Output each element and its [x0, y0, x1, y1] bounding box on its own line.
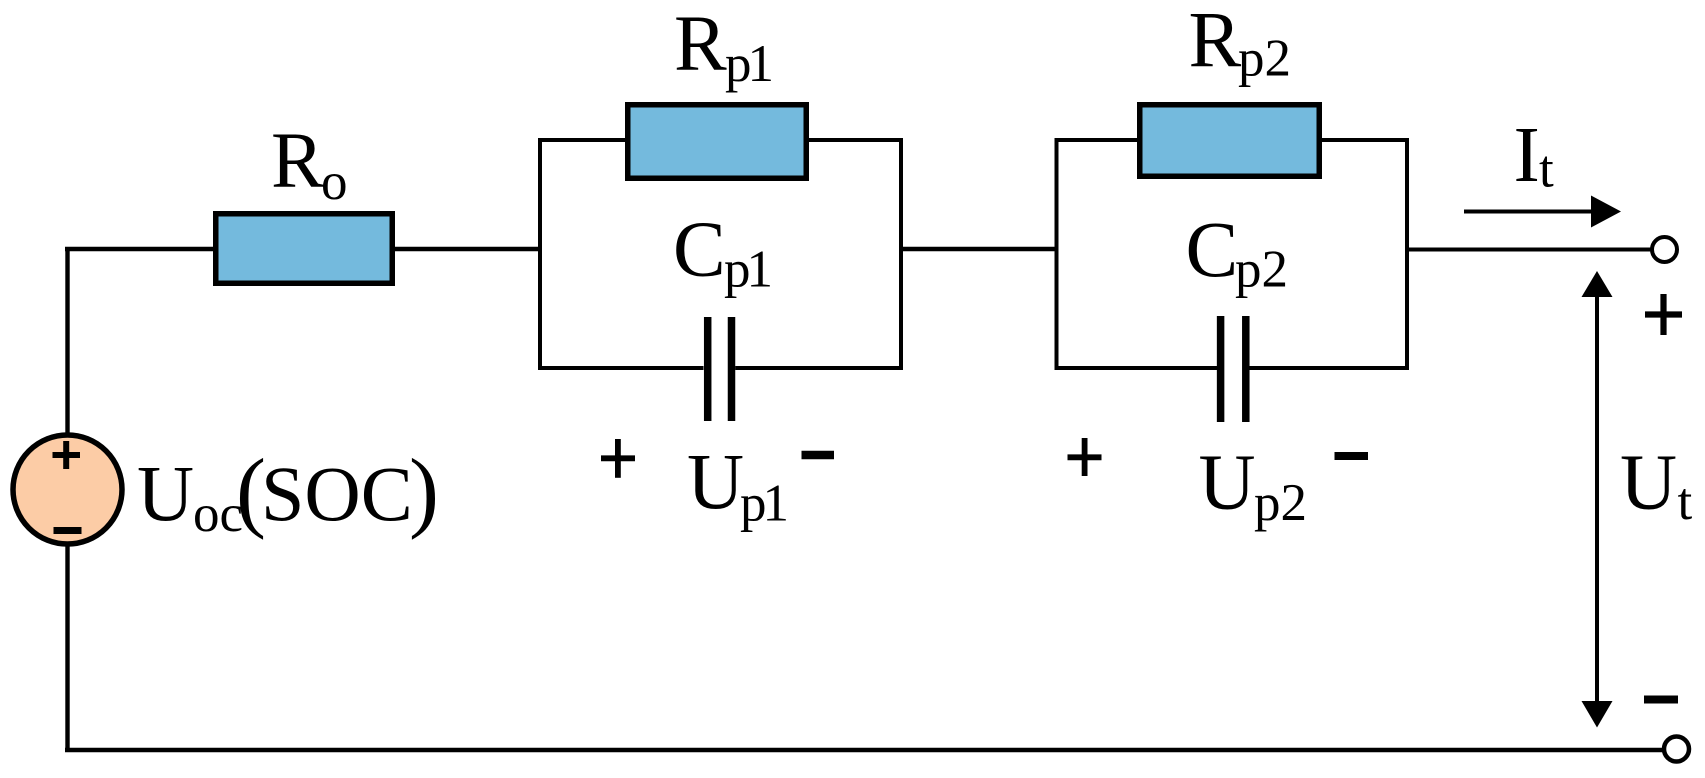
label R_o [271, 118, 348, 211]
svg-text:U: U [687, 439, 744, 526]
voltage source plus sign [53, 441, 81, 469]
label C_p1 [673, 207, 771, 299]
plus sign Ut [1645, 294, 1682, 335]
label C_p2 [1186, 207, 1289, 299]
svg-text:U: U [137, 451, 194, 538]
svg-text:U: U [1620, 439, 1677, 526]
resistor Rp1 [628, 105, 807, 179]
svg-text:t: t [1539, 141, 1554, 199]
svg-text:U: U [1199, 440, 1256, 527]
svg-text:SOC: SOC [261, 450, 413, 537]
wire top-left to R_o [65, 247, 216, 252]
label U_t [1620, 439, 1693, 531]
svg-text:p2: p2 [1254, 474, 1307, 532]
svg-text:I: I [1514, 112, 1540, 199]
bottom terminal node [1664, 737, 1689, 762]
capacitor Cp1 plates [708, 317, 732, 421]
voltage source U_oc circle [13, 435, 122, 544]
svg-text:p1: p1 [725, 35, 772, 93]
minus sign Ut [1644, 696, 1678, 704]
voltage source minus sign [54, 527, 82, 534]
wire R_o to RC block 1 [392, 247, 541, 252]
top terminal node [1652, 237, 1677, 262]
svg-text:p1: p1 [740, 475, 787, 533]
wire bottom rail [65, 748, 1663, 753]
wire RC block 2 to top terminal [1407, 248, 1653, 252]
svg-text:R: R [271, 118, 324, 205]
svg-text:C: C [673, 207, 726, 294]
wire left rail vertical [65, 249, 69, 750]
label U_oc(SOC) [137, 442, 439, 544]
svg-text:C: C [1186, 207, 1239, 294]
wire RC block 1 to RC block 2 [901, 247, 1057, 252]
label I_t [1514, 112, 1555, 199]
label R_p2 [1189, 0, 1292, 88]
svg-text:p1: p1 [724, 241, 771, 299]
plus sign Up1 [601, 439, 635, 478]
minus sign Up2 [1335, 452, 1369, 460]
label U_p2 [1199, 440, 1308, 533]
label U_p1 [687, 439, 787, 533]
RC block 2 box [1057, 140, 1408, 370]
resistor R_o [216, 214, 393, 284]
svg-text:): ) [409, 442, 439, 541]
svg-text:p2: p2 [1235, 241, 1288, 299]
label R_p1 [674, 1, 772, 93]
svg-text:t: t [1678, 473, 1693, 531]
svg-text:o: o [321, 153, 348, 211]
minus sign Up1 [802, 451, 835, 460]
RC block 1 box [540, 140, 901, 370]
resistor Rp2 [1140, 105, 1320, 177]
voltage arrow Ut double-headed [1582, 271, 1613, 728]
svg-text:p2: p2 [1238, 30, 1291, 88]
capacitor Cp2 plates [1221, 316, 1246, 422]
svg-text:R: R [674, 1, 727, 88]
plus sign Up2 [1068, 438, 1102, 476]
current arrow It [1464, 196, 1621, 228]
svg-text:R: R [1189, 0, 1242, 85]
